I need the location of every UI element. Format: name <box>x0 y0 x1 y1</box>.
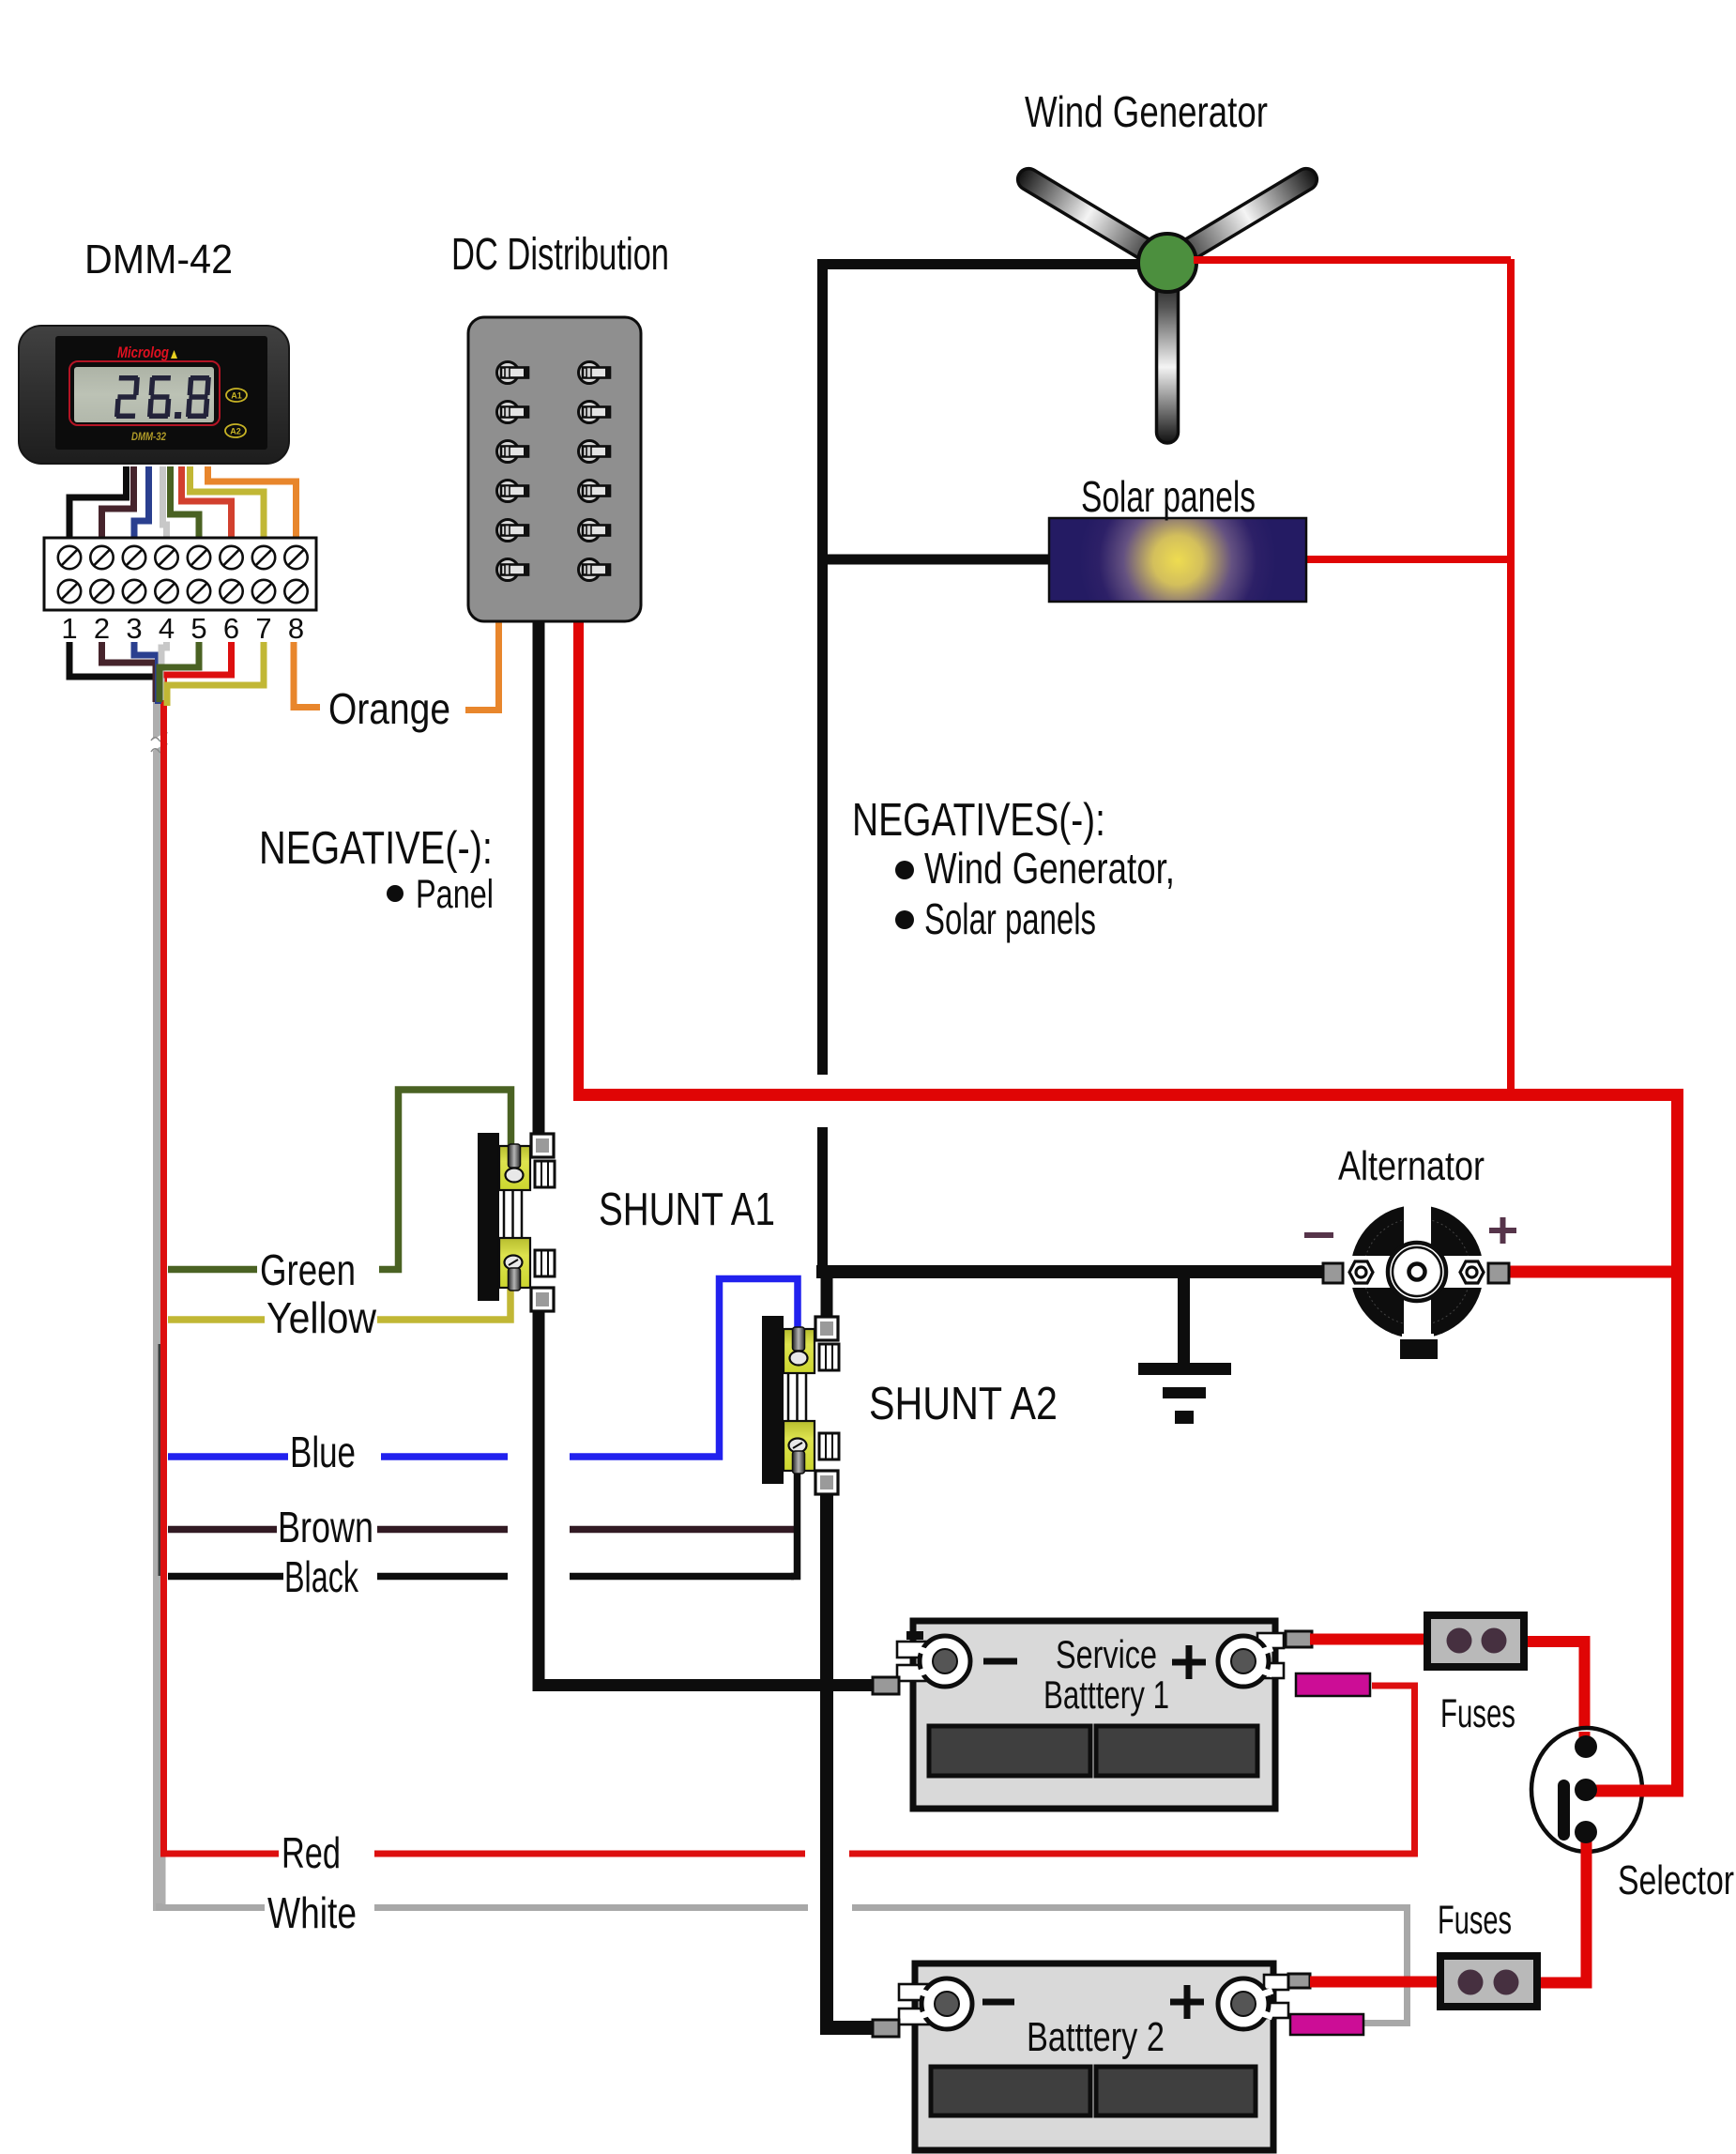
svg-text:Brown: Brown <box>278 1503 373 1551</box>
svg-text:DC Distribution: DC Distribution <box>451 230 669 280</box>
svg-text:8: 8 <box>288 612 304 645</box>
svg-text:3: 3 <box>126 612 142 645</box>
svg-text:Green: Green <box>260 1245 356 1294</box>
svg-text:Batttery 2: Batttery 2 <box>1027 2014 1165 2060</box>
svg-text:Fuses: Fuses <box>1438 1898 1512 1943</box>
svg-text:NEGATIVES(-):: NEGATIVES(-): <box>852 795 1105 846</box>
svg-text:6: 6 <box>223 612 239 645</box>
svg-text:Blue: Blue <box>290 1428 356 1476</box>
svg-text:Solar panels: Solar panels <box>1081 472 1256 521</box>
svg-text:White: White <box>267 1888 357 1937</box>
svg-text:Wind Generator,: Wind Generator, <box>924 844 1175 893</box>
svg-text:Microlog: Microlog <box>117 344 169 361</box>
svg-text:7: 7 <box>255 612 271 645</box>
svg-text:Black: Black <box>284 1552 359 1601</box>
svg-text:Alternator: Alternator <box>1338 1143 1485 1189</box>
svg-text:NEGATIVE(-):: NEGATIVE(-): <box>259 823 493 874</box>
svg-text:Selector: Selector <box>1618 1857 1734 1903</box>
svg-text:2: 2 <box>94 612 110 645</box>
svg-text:Solar panels: Solar panels <box>924 894 1096 943</box>
svg-text:Panel: Panel <box>416 872 494 917</box>
svg-text:Batttery 1: Batttery 1 <box>1043 1673 1169 1717</box>
svg-text:Wind Generator: Wind Generator <box>1025 87 1268 136</box>
svg-text:Orange: Orange <box>328 684 450 733</box>
svg-text:1: 1 <box>61 612 77 645</box>
svg-text:Service: Service <box>1056 1632 1157 1676</box>
svg-text:SHUNT A2: SHUNT A2 <box>869 1379 1058 1429</box>
svg-text:A1: A1 <box>231 391 242 401</box>
svg-text:DMM-32: DMM-32 <box>131 430 166 443</box>
svg-text:A2: A2 <box>230 427 241 436</box>
svg-text:Fuses: Fuses <box>1440 1691 1515 1736</box>
svg-text:5: 5 <box>190 612 206 645</box>
svg-text:Yellow: Yellow <box>266 1293 377 1342</box>
svg-text:SHUNT A1: SHUNT A1 <box>599 1184 775 1235</box>
svg-text:4: 4 <box>159 612 175 645</box>
svg-text:DMM-42: DMM-42 <box>84 237 233 283</box>
svg-text:Red: Red <box>282 1828 341 1877</box>
